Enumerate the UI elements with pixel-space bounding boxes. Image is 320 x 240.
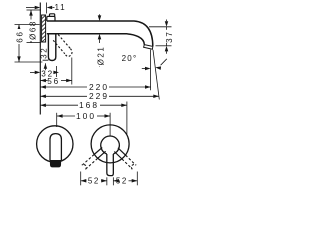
lever handle (side view) bbox=[48, 34, 55, 61]
dimension &#216;68 (escutcheon diameter) bbox=[27, 10, 42, 43]
svg-text:52: 52 bbox=[88, 177, 100, 186]
dimension 66 (height) bbox=[15, 25, 43, 63]
svg-text:20°: 20° bbox=[122, 54, 138, 63]
wall line (side view) bbox=[39, 3, 41, 115]
spout escutcheon (front view circle) bbox=[37, 126, 73, 162]
handle loop (front view) bbox=[101, 136, 120, 154]
spout outlet aerator (angled tip) bbox=[144, 45, 153, 50]
outlet extension line (vertical, for 220) bbox=[150, 50, 152, 91]
handle lever stem (front view) bbox=[107, 154, 114, 176]
extension line stem left bbox=[106, 177, 108, 185]
svg-text:56: 56 bbox=[47, 77, 60, 86]
svg-text:Ø68: Ø68 bbox=[28, 20, 37, 40]
svg-text:66: 66 bbox=[15, 30, 24, 42]
dimension 100 (centres distance) bbox=[57, 111, 110, 121]
dimension 229 (total reach) bbox=[40, 91, 159, 101]
dimension 11 (escutcheon depth) bbox=[26, 3, 67, 14]
extension line swung-right tip bbox=[136, 172, 138, 186]
spout cartridge cap (bump on top) bbox=[50, 14, 55, 17]
lever swung position (dashed, side view) bbox=[58, 35, 70, 49]
handle escutcheon (front view circle) bbox=[91, 125, 129, 163]
lever swung right (dashed, front view) bbox=[114, 152, 122, 160]
svg-text:32: 32 bbox=[39, 47, 48, 59]
svg-text:100: 100 bbox=[76, 111, 96, 121]
spout (front view, rounded slot) bbox=[50, 134, 61, 161]
dimension &#216;21 (spout diameter) bbox=[95, 14, 105, 66]
angle dimension 20&#176; bbox=[122, 54, 167, 70]
wall escutcheon (side view, hatched) bbox=[42, 15, 46, 42]
dimension 220 (spout reach) bbox=[40, 82, 150, 92]
extension line stem right bbox=[112, 177, 114, 185]
svg-text:Ø21: Ø21 bbox=[96, 46, 105, 66]
lever swung left (dashed, front view) bbox=[98, 151, 106, 158]
dimension 52 (left swing) bbox=[81, 177, 107, 186]
dimension 52 (right swing) bbox=[113, 177, 137, 186]
extension line spout centre bbox=[56, 113, 58, 127]
dimension 37 (spout drop) bbox=[149, 20, 174, 54]
dimension 32 vertical (lever drop) bbox=[39, 47, 48, 70]
dimension 168 bbox=[40, 100, 127, 110]
spout tube (side view) bbox=[47, 21, 153, 46]
extension line handle centre bbox=[109, 113, 111, 136]
dimension 56 (swung lever projection) bbox=[40, 58, 72, 86]
aerator outlet (front view, filled) bbox=[50, 160, 61, 167]
extension line swung-left tip bbox=[80, 172, 82, 186]
svg-text:168: 168 bbox=[79, 100, 99, 110]
outlet extension line (slanted, for 229) bbox=[153, 50, 159, 100]
dimension 32 (lever projection) bbox=[30, 66, 59, 79]
svg-text:11: 11 bbox=[54, 3, 66, 12]
lever bottom extension line bbox=[43, 59, 49, 61]
svg-text:52: 52 bbox=[116, 177, 128, 186]
extension line 168 right bbox=[126, 102, 128, 135]
svg-text:37: 37 bbox=[165, 30, 174, 43]
